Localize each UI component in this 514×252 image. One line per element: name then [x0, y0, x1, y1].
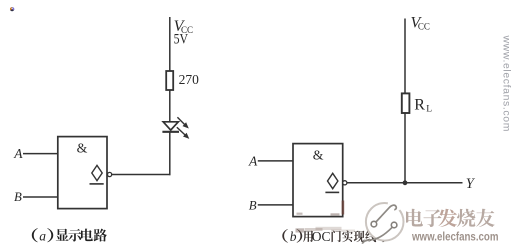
OC diamond symbol (U2) [328, 173, 338, 188]
svg-text:&: & [313, 147, 324, 162]
svg-text:R: R [414, 97, 425, 114]
wire resistor to output node (right) [404, 113, 406, 183]
wire VCC to resistor (right) [404, 19, 406, 94]
svg-text:B: B [249, 199, 257, 213]
wire gate G1 output to LED branch [112, 174, 171, 176]
gate U2 body (AND, open-collector) [293, 144, 343, 217]
watermark smudge over caption (b) [296, 227, 356, 233]
OC underline bar (U1) [90, 183, 104, 185]
svg-text:A: A [248, 153, 258, 168]
LED D1 (diode triangle + cathode bar) [162, 122, 179, 132]
label RL [414, 97, 432, 115]
svg-text:L: L [426, 105, 432, 115]
inversion bubble (U2 output) [343, 181, 347, 185]
svg-text:5V: 5V [174, 32, 189, 48]
page marker dot top-left [10, 7, 14, 11]
wire LED to output node [169, 132, 171, 175]
svg-text:OC: OC [312, 229, 331, 244]
wire input A (left) [23, 153, 58, 155]
svg-text:A: A [13, 146, 23, 161]
OC diamond symbol (U1) [92, 165, 102, 180]
LED light emission arrows [177, 117, 190, 139]
junction node dot [403, 180, 408, 185]
OC underline bar (U2) [325, 191, 339, 193]
resistor RL [402, 93, 410, 113]
svg-text:B: B [14, 190, 22, 204]
label VCC (right) [411, 14, 430, 31]
wire input A (right) [258, 160, 293, 162]
caption (a) 显示电路 [32, 228, 107, 243]
wire resistor to LED [169, 90, 171, 122]
resistor 270 [166, 71, 173, 90]
watermark text 电子发烧友 [406, 209, 495, 227]
watermark residue streak on gate edge [297, 201, 345, 216]
svg-text:a: a [39, 228, 46, 243]
svg-text:www.elecfans.com: www.elecfans.com [411, 231, 498, 243]
output wire to Y [347, 182, 463, 184]
svg-text:270: 270 [179, 72, 200, 87]
label VCC 5V (left) [174, 18, 193, 48]
wire input B (left) [23, 196, 58, 198]
wire input B (right) [258, 204, 293, 206]
wire VCC to resistor (left) [169, 17, 171, 72]
caption (b) 用OC门实现线与 [282, 229, 386, 244]
watermark logo circle icon [362, 203, 403, 244]
svg-text:CC: CC [418, 22, 430, 32]
svg-text:www.elecfans.com: www.elecfans.com [500, 35, 512, 133]
gate U1 body (AND, open-collector) [58, 137, 107, 209]
inversion bubble (U1 output) [108, 172, 112, 176]
svg-text:&: & [77, 141, 88, 156]
